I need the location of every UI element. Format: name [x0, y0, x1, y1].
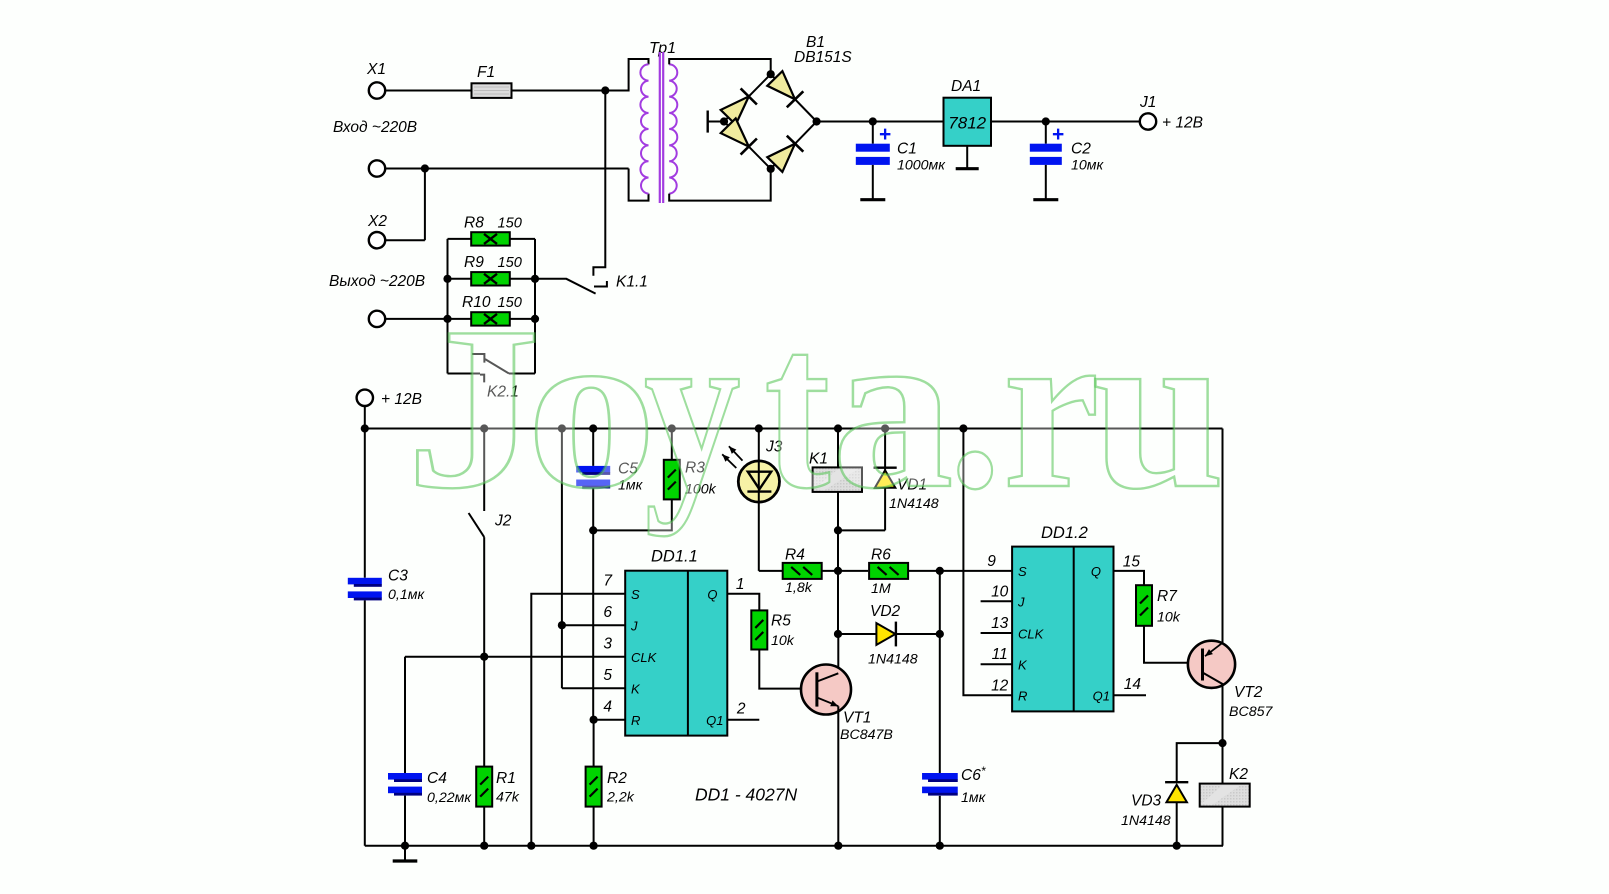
svg-text:C1: C1 — [897, 141, 917, 158]
svg-text:1: 1 — [736, 576, 745, 593]
svg-text:VD2: VD2 — [870, 603, 901, 620]
svg-text:3: 3 — [603, 636, 612, 653]
svg-text:Q1: Q1 — [1093, 689, 1110, 704]
svg-text:R: R — [1018, 689, 1027, 704]
svg-text:10: 10 — [991, 583, 1009, 600]
svg-text:J: J — [630, 619, 638, 634]
svg-text:S: S — [1018, 564, 1027, 579]
svg-text:1M: 1M — [871, 581, 891, 597]
svg-text:DD1 - 4027N: DD1 - 4027N — [695, 785, 797, 805]
svg-text:1,8k: 1,8k — [785, 580, 813, 596]
svg-text:o: o — [526, 278, 657, 537]
svg-text:DA1: DA1 — [951, 78, 981, 95]
svg-text:y: y — [644, 279, 741, 537]
svg-text:BC847B: BC847B — [840, 727, 893, 743]
svg-text:Q: Q — [1091, 564, 1101, 579]
svg-text:6: 6 — [603, 604, 612, 621]
svg-text:15: 15 — [1123, 554, 1141, 571]
svg-text:r: r — [1003, 278, 1100, 536]
svg-text:R5: R5 — [771, 613, 791, 630]
svg-text:150: 150 — [498, 216, 522, 232]
svg-text:R6: R6 — [871, 547, 891, 564]
svg-text:0,22мк: 0,22мк — [427, 790, 472, 806]
svg-text:S: S — [631, 587, 640, 602]
svg-text:7812: 7812 — [948, 114, 986, 133]
svg-text:R4: R4 — [785, 547, 805, 564]
svg-text:Q: Q — [707, 587, 717, 602]
svg-text:VT1: VT1 — [843, 710, 871, 727]
svg-text:4: 4 — [603, 699, 612, 716]
svg-text:10мк: 10мк — [1071, 158, 1105, 174]
svg-text:CLK: CLK — [631, 650, 658, 665]
svg-text:+ 12В: + 12В — [1162, 115, 1203, 132]
svg-text:J: J — [1017, 595, 1025, 610]
svg-text:+: + — [879, 123, 891, 146]
svg-text:2,2k: 2,2k — [606, 790, 635, 806]
svg-text:K: K — [1018, 658, 1028, 673]
svg-text:VD3: VD3 — [1131, 793, 1162, 810]
svg-text:F1: F1 — [477, 64, 495, 81]
svg-text:CLK: CLK — [1018, 626, 1045, 641]
svg-text:R7: R7 — [1157, 588, 1178, 605]
svg-text:150: 150 — [498, 255, 522, 271]
svg-text:11: 11 — [992, 646, 1008, 663]
svg-text:R8: R8 — [464, 215, 484, 232]
svg-text:X2: X2 — [367, 213, 387, 230]
svg-text:DB151S: DB151S — [794, 49, 852, 66]
svg-text:12: 12 — [991, 677, 1009, 694]
svg-text:R9: R9 — [464, 254, 484, 271]
svg-text:K: K — [631, 682, 641, 697]
svg-text:2: 2 — [736, 701, 746, 718]
svg-text:5: 5 — [603, 667, 612, 684]
svg-text:J: J — [405, 278, 541, 536]
svg-text:7: 7 — [603, 573, 613, 590]
svg-text:VT2: VT2 — [1234, 684, 1263, 701]
svg-text:C3: C3 — [388, 568, 408, 585]
svg-text:Вход ~220В: Вход ~220В — [333, 119, 417, 136]
svg-text:t: t — [764, 278, 830, 537]
svg-text:10k: 10k — [1157, 610, 1181, 626]
svg-text:+: + — [1052, 123, 1064, 146]
svg-text:a: a — [832, 278, 954, 537]
svg-text:R2: R2 — [607, 770, 627, 787]
svg-text:BC857: BC857 — [1229, 704, 1273, 720]
svg-text:R: R — [631, 713, 640, 728]
svg-text:R1: R1 — [496, 770, 516, 787]
svg-text:DD1.1: DD1.1 — [651, 548, 698, 566]
svg-text:14: 14 — [1124, 676, 1142, 693]
svg-text:.: . — [949, 278, 1001, 536]
svg-text:C2: C2 — [1071, 141, 1091, 158]
svg-text:X1: X1 — [366, 61, 386, 78]
svg-text:1N4148: 1N4148 — [868, 652, 918, 668]
svg-text:1мк: 1мк — [961, 790, 987, 806]
svg-text:0,1мк: 0,1мк — [388, 587, 425, 603]
svg-text:10k: 10k — [771, 633, 795, 649]
svg-text:1N4148: 1N4148 — [1121, 813, 1171, 829]
svg-text:K2: K2 — [1229, 766, 1248, 783]
svg-text:13: 13 — [991, 615, 1009, 632]
svg-text:Q1: Q1 — [706, 713, 723, 728]
svg-text:1000мк: 1000мк — [897, 158, 946, 174]
svg-text:u: u — [1092, 280, 1225, 538]
svg-text:47k: 47k — [496, 790, 520, 806]
svg-text:9: 9 — [987, 553, 996, 570]
svg-text:C4: C4 — [427, 770, 447, 787]
svg-text:J1: J1 — [1139, 94, 1156, 111]
